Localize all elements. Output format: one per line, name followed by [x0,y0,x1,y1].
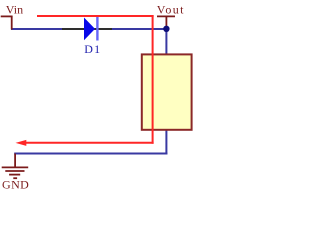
current path red top wire [37,15,154,17]
wire blue vertical (Vout node down through load to bottom) [165,29,167,155]
wire Vin terminal stem [11,16,13,29]
terminal Vout tick [157,15,175,17]
node Vout junction dot [163,26,169,32]
terminal Vin tick [1,15,13,17]
ground bar 4 [13,177,17,179]
load resistor box RL [142,54,192,129]
wire Vout terminal stem [165,16,167,27]
ground bar 3 [9,174,20,176]
wire black diode leads [62,28,112,30]
svg-text:Vout: Vout [157,2,185,16]
svg-text:D1: D1 [84,42,101,56]
ground bar 1 [2,166,29,168]
ground bar 2 [5,170,24,172]
wire blue bottom (to ground) [14,153,167,155]
ground stem [14,154,16,168]
current path red arrowhead [16,140,27,146]
diode D1 triangle (anode) [84,18,95,41]
diode D1 cathode bar [96,17,98,41]
svg-text:GND: GND [2,178,29,192]
current path red bottom wire [25,142,154,144]
current path red vertical wire [152,15,154,144]
wire blue top (Vin to Vout node) [11,28,166,30]
svg-text:Vin: Vin [6,3,23,17]
